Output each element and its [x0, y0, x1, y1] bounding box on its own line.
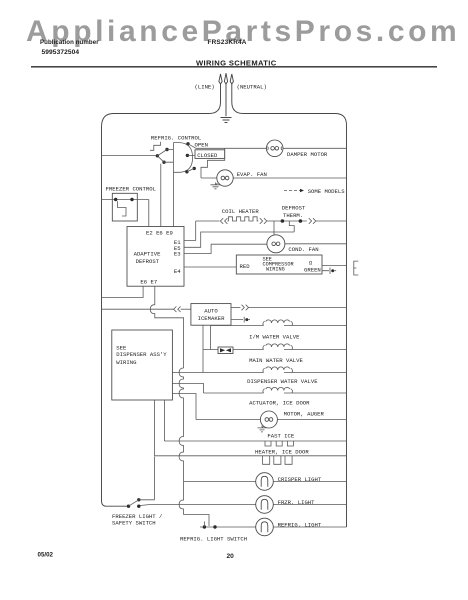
- svg-text:CRISPER LIGHT: CRISPER LIGHT: [278, 476, 322, 483]
- svg-text:THERM.: THERM.: [283, 212, 303, 219]
- svg-text:Publication number: Publication number: [40, 39, 99, 46]
- svg-text:(NEUTRAL): (NEUTRAL): [237, 84, 267, 91]
- svg-text:DISPENSER WATER VALVE: DISPENSER WATER VALVE: [247, 378, 318, 385]
- svg-text:E3: E3: [174, 251, 181, 258]
- svg-text:20: 20: [227, 553, 235, 560]
- svg-text:HEATER, ICE DOOR: HEATER, ICE DOOR: [255, 449, 309, 456]
- svg-text:SAFETY SWITCH: SAFETY SWITCH: [112, 520, 156, 527]
- svg-text:I/M WATER VALVE: I/M WATER VALVE: [249, 334, 300, 341]
- svg-text:COND. FAN: COND. FAN: [288, 246, 318, 253]
- svg-text:DAMPER MOTOR: DAMPER MOTOR: [287, 151, 328, 158]
- svg-text:WIRING: WIRING: [266, 267, 285, 273]
- svg-text:DEFROST: DEFROST: [136, 258, 160, 265]
- svg-text:ADAPTIVE: ADAPTIVE: [134, 250, 161, 257]
- svg-text:E2 E6 E9: E2 E6 E9: [146, 230, 173, 237]
- svg-text:FREEZER CONTROL: FREEZER CONTROL: [106, 186, 156, 193]
- svg-text:OPEN: OPEN: [195, 141, 208, 148]
- svg-text:RED: RED: [240, 263, 251, 270]
- svg-text:CLOSED: CLOSED: [197, 152, 218, 159]
- svg-text:5995372504: 5995372504: [42, 49, 80, 56]
- svg-text:COIL HEATER: COIL HEATER: [222, 208, 260, 215]
- svg-text:05/02: 05/02: [38, 552, 54, 559]
- svg-text:E4: E4: [174, 268, 181, 275]
- svg-text:ICEMAKER: ICEMAKER: [198, 315, 225, 322]
- svg-text:SOME MODELS: SOME MODELS: [308, 188, 346, 195]
- svg-text:DEFROST: DEFROST: [282, 205, 306, 212]
- svg-text:REFRIG. LIGHT SWITCH: REFRIG. LIGHT SWITCH: [180, 536, 247, 543]
- svg-text:REFRIG. LIGHT: REFRIG. LIGHT: [278, 521, 322, 528]
- svg-text:MAIN WATER VALVE: MAIN WATER VALVE: [249, 357, 303, 364]
- svg-text:GREEN: GREEN: [304, 266, 321, 273]
- svg-text:DISPENSER ASS'Y: DISPENSER ASS'Y: [116, 351, 167, 358]
- svg-text:FRS23KR4A: FRS23KR4A: [208, 39, 247, 46]
- svg-text:WIRING SCHEMATIC: WIRING SCHEMATIC: [196, 58, 277, 67]
- svg-text:AUTO: AUTO: [204, 307, 218, 314]
- svg-text:EVAP. FAN: EVAP. FAN: [237, 171, 267, 178]
- svg-text:MOTOR, AUGER: MOTOR, AUGER: [284, 410, 325, 417]
- svg-text:ACTUATOR, ICE DOOR: ACTUATOR, ICE DOOR: [249, 399, 310, 406]
- svg-text:FRZR. LIGHT: FRZR. LIGHT: [278, 499, 316, 506]
- svg-text:E6 E7: E6 E7: [140, 278, 157, 285]
- svg-text:FAST ICE: FAST ICE: [267, 433, 294, 440]
- svg-text:WIRING: WIRING: [116, 359, 137, 366]
- svg-text:(LINE): (LINE): [195, 84, 215, 91]
